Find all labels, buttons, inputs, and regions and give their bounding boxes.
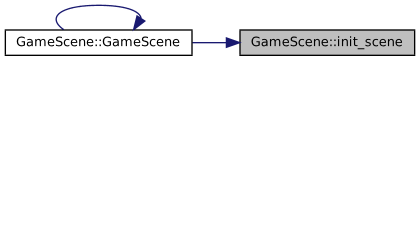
node Node1 border xyxy=(239,29,415,30)
edge Node2->Node1 arrowhead xyxy=(226,37,242,48)
node Node2 border: GameScene::GameScene xyxy=(5,29,193,30)
edge Node2->Node2 self-loop arrowhead xyxy=(132,15,146,31)
node Node1 fill: GameScene::init_scene (current node, grey75) xyxy=(240,30,415,55)
node Node1 label "GameScene::init_scene" (glyph outlines) xyxy=(252,36,403,49)
doxygen caller graph: GameScene::init_scene xyxy=(0,0,420,61)
edge Node2->Node2 self-loop wire xyxy=(56,5,142,31)
edge Node2->Node1 wire xyxy=(193,42,227,43)
node Node2 label "GameScene::GameScene" (glyph outlines) xyxy=(17,37,180,47)
